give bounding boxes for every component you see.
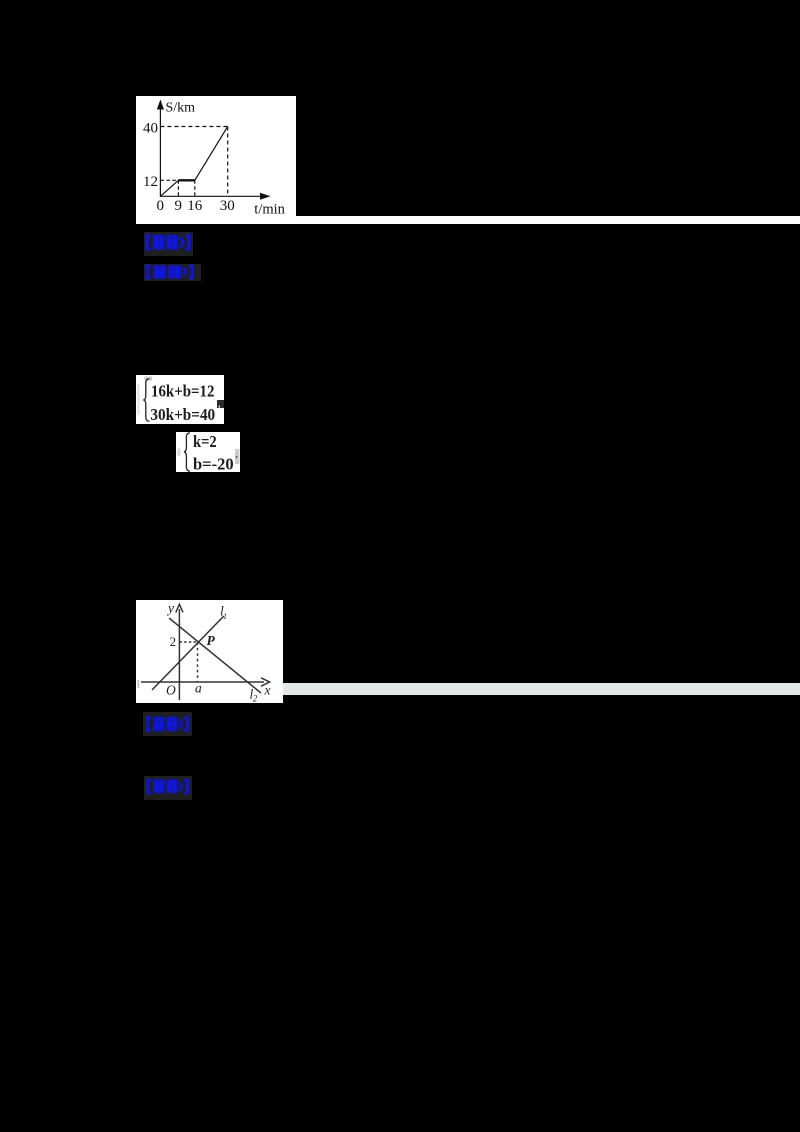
x axis arrow	[260, 193, 271, 200]
svg-text:30k+b=40: 30k+b=40	[150, 405, 215, 424]
svg-text:P: P	[207, 633, 216, 648]
dashed y=12	[160, 179, 178, 181]
equation block 2	[176, 432, 240, 472]
dashed x=9	[177, 180, 179, 196]
white strip right of graph 1	[294, 216, 800, 224]
blue label 4	[144, 776, 193, 801]
solid segment origin to (9,12)	[160, 180, 178, 196]
svg-text:12: 12	[143, 174, 158, 190]
svg-text:2: 2	[253, 694, 258, 704]
dashed x=16	[194, 180, 196, 196]
svg-text:0: 0	[156, 198, 164, 214]
dashed to P	[179, 641, 197, 643]
x axis	[141, 681, 264, 683]
x arrow (open chevron)	[261, 678, 270, 686]
svg-text:t/min: t/min	[254, 202, 285, 218]
y axis arrow	[157, 100, 164, 110]
y arrow (open chevron)	[176, 604, 183, 612]
svg-text:,: ,	[235, 448, 238, 460]
y axis	[178, 609, 180, 700]
svg-text:30: 30	[220, 198, 235, 214]
svg-text:k=2: k=2	[193, 432, 217, 451]
blue label 2	[144, 264, 201, 281]
dashed y=40	[160, 126, 227, 128]
equation block 1	[136, 375, 224, 424]
gray strip right of graph 2	[283, 683, 800, 695]
svg-text:2: 2	[170, 634, 177, 649]
line l1	[152, 616, 224, 690]
graph 1 white panel	[136, 96, 296, 224]
svg-text:a: a	[195, 680, 202, 695]
plateau thick segment	[178, 179, 194, 181]
graph 2 drawing	[136, 600, 283, 703]
small gray tick	[138, 680, 140, 688]
svg-text:S/km: S/km	[166, 101, 196, 116]
svg-text:16: 16	[187, 198, 203, 214]
svg-text:16k+b=12: 16k+b=12	[151, 381, 215, 400]
svg-text:b=-20: b=-20	[193, 454, 234, 472]
svg-text:40: 40	[143, 121, 158, 137]
rising segment to (30,40)	[195, 127, 228, 181]
svg-text:1: 1	[223, 612, 227, 621]
graph 1 drawing	[136, 96, 296, 224]
y axis	[159, 105, 161, 197]
x axis	[160, 195, 263, 197]
svg-text:y: y	[166, 601, 174, 616]
blue label 3	[143, 712, 192, 736]
dashed x=30	[227, 127, 229, 197]
svg-text:,: ,	[218, 395, 221, 409]
line l2	[169, 618, 261, 693]
svg-text:x: x	[264, 683, 271, 698]
blue label 1	[144, 232, 193, 257]
svg-text:O: O	[166, 682, 176, 697]
graph 2 white panel	[136, 600, 283, 703]
svg-text:9: 9	[175, 198, 183, 214]
